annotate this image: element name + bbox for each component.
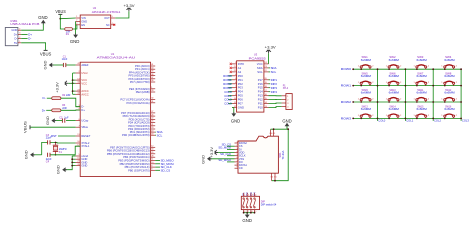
svg-text:GND: GND (45, 116, 50, 125)
svg-text:PD0 (OC0B/SCL/INT0): PD0 (OC0B/SCL/INT0) (122, 133, 150, 137)
junction SW7 row tap (416, 85, 418, 87)
wire ground flag stem (SD top) (286, 126, 288, 129)
wire power bus to VCC pin (73, 79, 76, 81)
switch SW7 (416, 82, 418, 84)
svg-text:COL3: COL3 (462, 119, 469, 123)
svg-text:USB A MALE PCB: USB A MALE PCB (10, 22, 39, 26)
svg-text:COL0: COL0 (378, 119, 385, 123)
wire SD_MOSI to SD1 (227, 148, 235, 150)
junction SW15 column (432, 118, 434, 120)
ground flag (SD VSS) (207, 156, 210, 161)
junction dip ground (250, 212, 252, 214)
wire D- label to R2 (47, 97, 52, 99)
junction SW10 column (405, 101, 407, 103)
junction SW4 column (460, 68, 462, 70)
junction SW12 row tap (444, 101, 446, 103)
switch SW13 (360, 115, 362, 117)
U1 pin 21 PD3 (TXD1/INT3) stub (151, 125, 156, 127)
wire U3 P10 to connector P1 (269, 107, 282, 108)
wire column 3 bus (460, 69, 462, 121)
DIP switch pin 3 stub (250, 193, 252, 197)
wire R2 to D- pin (61, 98, 80, 107)
wire R3 to D+ pin (61, 109, 80, 111)
svg-text:PE2 (HWB): PE2 (HWB) (136, 90, 150, 94)
wire COL1 stub (U3) (228, 95, 232, 97)
switch SW4 (444, 66, 446, 68)
svg-text:D+: D+ (14, 32, 18, 36)
svg-text:VBUS: VBUS (23, 121, 28, 133)
wire U2 OUT to +3.3V (115, 11, 129, 18)
USB1 pin 2 D- stub (18, 38, 21, 40)
capacitor C2 (61, 119, 63, 123)
U1 pin 40 PF1 (ADC1) stub (151, 68, 156, 70)
U1 pin 27 PD7 (T0/OC4D/ADC10) stub (151, 112, 156, 114)
junction dip ground (254, 212, 256, 214)
svg-text:5: 5 (237, 154, 238, 156)
U1 pin 39 PF4 (ADC4/TCK) stub (151, 71, 156, 73)
U1 pin 2 UVcc stub (76, 72, 81, 74)
svg-text:PCA9555: PCA9555 (249, 57, 267, 61)
svg-text:22R: 22R (62, 107, 67, 110)
SD1 pin 6 VSS stub (235, 158, 239, 160)
wire VBUS down to junction (59, 14, 61, 18)
P1 pin 3 stub (282, 102, 286, 104)
junction SW8 column (460, 85, 462, 87)
junction SW4 row tap (444, 68, 446, 70)
svg-text:G2: G2 (270, 177, 273, 179)
junction SW12 column (460, 101, 462, 103)
U3 pin 11 P07 stub (232, 103, 237, 105)
U1 pin 33 PE2 (HWB) stub (151, 91, 156, 93)
svg-text:6x6MM: 6x6MM (389, 74, 399, 78)
svg-text:U2: U2 (93, 6, 97, 10)
svg-text:4: 4 (237, 151, 238, 153)
svg-text:2: 2 (237, 145, 238, 147)
wire DIP1 stub (U3) (269, 79, 271, 81)
svg-text:XH-4: XH-4 (283, 87, 289, 90)
svg-text:SCL: SCL (257, 70, 263, 74)
svg-text:PB3 (PDO/PCINT3/MISO): PB3 (PDO/PCINT3/MISO) (118, 158, 149, 162)
svg-text:VBUS: VBUS (40, 51, 52, 56)
svg-text:PF7 (ADC7/TDI): PF7 (ADC7/TDI) (130, 80, 150, 84)
U3 pin 5 P01 stub (232, 79, 237, 81)
junction SW9 row tap (360, 101, 362, 103)
junction power bus (72, 79, 74, 81)
svg-text:TF-01A: TF-01A (281, 150, 285, 159)
DIP switch pin 6 stub (246, 210, 248, 213)
SD1 pin 5 SCLK stub (235, 155, 239, 157)
svg-text:SD_MOSI: SD_MOSI (218, 146, 231, 150)
no-connect mark on U3 left pin (230, 71, 232, 73)
svg-text:1: 1 (237, 141, 238, 143)
wire SDA stub (U3) (269, 67, 271, 69)
svg-text:3: 3 (19, 33, 20, 35)
wire U3 GND to ground (232, 108, 234, 114)
wire XTAL2 cap branch (42, 142, 48, 154)
svg-text:G4: G4 (269, 133, 272, 135)
regulator U2 body (80, 15, 111, 29)
U3 pin 23 SDA stub (264, 67, 269, 69)
junction SD ground 1 (273, 128, 275, 130)
svg-text:22R: 22R (66, 94, 71, 97)
svg-text:CD: CD (239, 166, 243, 170)
no-connect mark on U3 left pin (230, 67, 232, 69)
svg-text:ROW2: ROW2 (341, 100, 352, 104)
svg-text:ATMEGA32U4-AU: ATMEGA32U4-AU (97, 56, 136, 60)
wire COL2 stub (U3) (228, 99, 232, 101)
DIP switch pin 7 stub (250, 210, 252, 213)
U1 pin 17 XTAL1 stub (76, 145, 81, 147)
U1 pin 38 PF5 (ADC5/TMS) stub (151, 75, 156, 77)
wire SD_CS stub (155, 169, 160, 171)
U1 pin 22 PD5 (XCK1/CTS) stub (151, 118, 156, 120)
svg-text:D-: D- (28, 37, 31, 41)
U3 pin 6 P02 stub (232, 83, 237, 85)
U3 pin 21 A1 stub (232, 67, 237, 69)
wire C2 to ground (55, 120, 63, 122)
svg-text:6x6MM: 6x6MM (444, 74, 454, 78)
svg-text:GND: GND (242, 218, 252, 223)
wire row 0 bus (353, 68, 462, 70)
U1 pin 19 PD1 (SDA/INT1) stub (151, 131, 156, 133)
power flag +3.3V (U1) (65, 81, 68, 86)
svg-text:SD_CS: SD_CS (161, 168, 171, 172)
DIP switch pin 1 stub (243, 193, 245, 197)
svg-text:GND: GND (38, 15, 48, 20)
svg-text:D-: D- (14, 37, 17, 41)
wire power bus to VCC pin (73, 90, 76, 92)
U2 pin 1 VIN stub (76, 17, 81, 19)
junction SW6 column (405, 85, 407, 87)
wire XTAL2 line (50, 141, 76, 144)
svg-text:GND: GND (81, 19, 87, 23)
junction SW9 column (377, 101, 379, 103)
svg-text:6x6MM: 6x6MM (444, 107, 454, 111)
wire power bus to VCC pin (73, 82, 76, 84)
svg-text:EN: EN (81, 23, 85, 27)
U3 pin 22 SCL stub (264, 71, 269, 73)
svg-text:6x6MM: 6x6MM (417, 107, 427, 111)
SD1 shield pin G3 stub (273, 129, 275, 136)
junction XTAL1 node (55, 154, 57, 156)
wire 5V to VBUS flag (21, 43, 45, 51)
ground flag (crystal) (30, 152, 33, 157)
wire GND pin to bus (72, 161, 75, 163)
svg-text:VBus: VBus (81, 125, 88, 129)
U1 pin 23 GND stub (76, 161, 81, 163)
svg-text:D+: D+ (42, 108, 46, 112)
capacitor C3 (47, 140, 49, 144)
junction SW14 row tap (388, 118, 390, 120)
wire DIP4 stub (U3) (269, 91, 271, 93)
wire GND pin to bus (72, 155, 75, 157)
svg-text:SCL: SCL (157, 133, 163, 137)
U1 pin 29 PB5 (PCINT5/OC1A/OC4B/ADC12) stub (151, 153, 156, 155)
connector USB1 body (5, 28, 18, 46)
U1 pin 10 PB2 (PDI/PCINT2/MOSI) stub (151, 163, 156, 165)
wire D+ stub (21, 33, 27, 35)
svg-text:GND: GND (24, 150, 29, 159)
svg-text:22pF: 22pF (46, 137, 52, 140)
junction SW11 column (432, 101, 434, 103)
U1 pin 3 D- stub (76, 106, 81, 108)
svg-text:5: 5 (112, 16, 113, 18)
junction row 2 start (352, 101, 354, 103)
wire SD_MISO to SD1 (227, 161, 235, 163)
svg-text:6: 6 (237, 157, 238, 159)
junction SW7 column (432, 85, 434, 87)
U3 pin 10 P06 stub (232, 99, 237, 101)
U1 pin 34 VCC stub (76, 82, 81, 84)
svg-text:D+: D+ (81, 108, 85, 112)
switch SW5 (360, 82, 362, 84)
wire +3.3V flag to bus (68, 82, 72, 84)
wire U3 P13 to connector P1 (269, 95, 282, 97)
svg-text:COL3: COL3 (224, 102, 232, 106)
wire SD_CS to SD1 (227, 145, 235, 147)
junction SW2 row tap (388, 68, 390, 70)
U1 pin 12 PB7 (PCINT7/OC0A/OC1C/RTS) stub (151, 146, 156, 148)
junction dip ground (246, 212, 248, 214)
wire power bus to VCC pin (73, 72, 76, 74)
wire U3 P12 to connector P1 (269, 98, 282, 100)
svg-text:2: 2 (19, 37, 20, 39)
switch SW8 (444, 82, 446, 84)
wire ROW3 stub (U3) (228, 87, 232, 89)
U1 pin 36 PF7 (ADC7/TDI) stub (151, 81, 156, 83)
wire SD_CLK to SD1 (227, 155, 235, 157)
svg-text:VBUS: VBUS (55, 9, 66, 14)
U1 pin 30 PB6 (PCINT6/OC1B/OC4B/ADC13) stub (151, 150, 156, 152)
svg-text:6x6MM: 6x6MM (417, 74, 427, 78)
svg-text:9: 9 (237, 167, 238, 169)
ground flag (DIP) (245, 215, 250, 218)
wire SD_CLK stub (155, 166, 160, 168)
wire VBUS to R1 (60, 19, 65, 29)
svg-text:6x6MM: 6x6MM (389, 58, 399, 62)
svg-text:7: 7 (237, 160, 238, 162)
switch SW1 (360, 66, 362, 68)
wire SD VSS to ground (210, 158, 234, 160)
SD1 pin 8 DATA1 stub (235, 164, 239, 166)
junction SW2 column (405, 68, 407, 70)
U1 pin 1 PE6 (INT.6/AIN0) stub (151, 88, 156, 90)
junction SW14 column (405, 118, 407, 120)
net port bar VBUS (44, 49, 48, 51)
svg-text:VIN: VIN (81, 16, 85, 20)
svg-text:ROW3: ROW3 (341, 116, 352, 120)
SD1 shield pin G4 stub (270, 129, 272, 136)
svg-text:D-: D- (43, 96, 46, 100)
DIP switch pin 5 stub (243, 210, 245, 213)
U3 pin 19 P16 stub (264, 83, 269, 85)
P1 pin 2 stub (282, 98, 286, 100)
switch SW11 (416, 99, 418, 101)
crystal X1 (55, 142, 57, 145)
SD1 shield pin G1 stub (274, 173, 276, 181)
P1 pin 1 stub (282, 95, 286, 97)
U1 pin 44 AVCC stub (76, 93, 81, 95)
U1 pin 15 GND stub (76, 158, 81, 160)
wire VBUS to VIN (60, 17, 75, 20)
svg-text:G1: G1 (274, 177, 277, 179)
svg-text:6x6MM: 6x6MM (417, 58, 427, 62)
capacitor C1 (62, 63, 64, 67)
U1 pin 32 PC7 (ICP3/CLK0/OC4A) stub (151, 99, 156, 101)
junction power bus (72, 82, 74, 84)
wire ROW2 stub (U3) (228, 83, 232, 85)
SD1 pin 2 CS stub (235, 145, 239, 147)
switch SW3 (416, 66, 418, 68)
switch SW16 (444, 115, 446, 117)
ground flag (U3) (231, 113, 236, 116)
junction SW6 row tap (388, 85, 390, 87)
U3 pin 13 P10 stub (264, 107, 269, 109)
U1 pin 8 PB0 (SS/PCINT0) stub (151, 169, 156, 171)
svg-text:AP2112K-3.3TRG1: AP2112K-3.3TRG1 (92, 10, 121, 14)
svg-text:5V: 5V (14, 41, 17, 45)
svg-text:COL1: COL1 (406, 119, 413, 123)
U3 pin 4 P00 stub (232, 75, 237, 77)
svg-text:4: 4 (19, 28, 20, 30)
USB1 pin 4 GND stub (18, 29, 21, 31)
svg-text:8: 8 (237, 164, 238, 166)
ground flag (C2) (51, 118, 54, 123)
U3 pin 16 P13 stub (264, 95, 269, 97)
DIP switch pin 2 stub (246, 193, 248, 197)
junction SD ground 2 (287, 128, 289, 130)
wire D- stub (21, 38, 27, 40)
wire SCL stub (U3) (269, 71, 271, 73)
ground flag (U2) (73, 35, 78, 38)
svg-text:+3.3V: +3.3V (124, 3, 135, 8)
junction SW10 row tap (388, 101, 390, 103)
power flag +3.3V (SD1) (215, 150, 218, 155)
U1 pin 20 PD2 (RXD1/INT2) stub (151, 128, 156, 130)
junction ground bus (71, 165, 73, 167)
U3 pin 14 P11 stub (264, 103, 269, 105)
U3 pin 9 P05 stub (232, 95, 237, 97)
power flag +3.3V (U3) (266, 50, 271, 53)
wire column 0 bus (377, 69, 379, 121)
svg-text:6x6MM: 6x6MM (444, 91, 454, 95)
svg-text:6x6MM: 6x6MM (417, 91, 427, 95)
svg-text:3: 3 (237, 148, 238, 150)
wire row 1 bus (353, 85, 462, 87)
net port bar VBUS (U1) (29, 125, 31, 129)
svg-text:1: 1 (76, 16, 77, 18)
wire UCap to C2 (66, 120, 76, 122)
U2 pin 3 EN stub (76, 24, 81, 26)
U1 pin 16 XTAL2 stub (76, 142, 81, 144)
U1 pin 26 PD6 (T1/OC4D/ADC9) stub (151, 115, 156, 117)
svg-text:GND: GND (11, 28, 17, 32)
SD1 pin 4 VDD stub (235, 152, 239, 154)
junction SW13 row tap (360, 118, 362, 120)
svg-text:ROW0: ROW0 (341, 67, 352, 71)
dip switch element 4 (254, 198, 255, 199)
U3 pin 7 P03 stub (232, 87, 237, 89)
junction SW13 column (377, 118, 379, 120)
wire COL3 stub (U3) (228, 103, 232, 105)
connector P1 body (286, 94, 292, 110)
svg-text:P10: P10 (258, 106, 263, 110)
wire VBus pin to VBUS port (30, 126, 76, 128)
svg-text:GND: GND (70, 39, 80, 44)
svg-text:RST: RST (51, 134, 57, 138)
svg-text:2: 2 (76, 20, 77, 22)
wire dip ground stem (246, 213, 248, 215)
junction row 3 start (352, 118, 354, 120)
svg-text:GND: GND (56, 165, 61, 174)
wire SD_MOSI stub (155, 163, 160, 165)
resistor R2 (52, 97, 61, 100)
wire COL0 stub (U3) (228, 91, 232, 93)
junction row 1 start (352, 85, 354, 87)
ground flag (SD top) (285, 123, 290, 126)
U3 pin 1 INT# stub (232, 63, 237, 65)
dip switch body (241, 196, 259, 209)
svg-text:UCap: UCap (81, 119, 88, 123)
wire column 2 bus (432, 69, 434, 121)
wire row 3 bus (353, 117, 462, 119)
svg-text:VCC: VCC (81, 81, 87, 85)
switch SW10 (388, 99, 390, 101)
SD1 pin 7 DO stub (235, 161, 239, 163)
wire USB GND to ground (21, 23, 43, 30)
SD1 pin 9 CD stub (235, 167, 239, 169)
wire D+ label to R3 (46, 109, 52, 111)
U2 pin 5 OUT stub (111, 17, 116, 19)
wire ROW0 stub (U3) (228, 75, 232, 77)
svg-text:XTAL1: XTAL1 (81, 144, 90, 148)
USB1 pin 3 D+ stub (18, 33, 21, 35)
junction SW1 column (377, 68, 379, 70)
junction SW11 row tap (416, 101, 418, 103)
svg-text:GND: GND (42, 60, 47, 69)
svg-text:AREF: AREF (81, 63, 89, 67)
switch SW2 (388, 66, 390, 68)
no-connect mark on U2 NC (113, 24, 115, 26)
junction SW16 row tap (444, 118, 446, 120)
junction SD ground 3 (274, 180, 276, 182)
resistor R1 (65, 28, 73, 31)
dip switch element 3 (250, 198, 251, 199)
svg-text:G3: G3 (273, 133, 276, 135)
junction ground bus (71, 162, 73, 164)
svg-text:COL2: COL2 (434, 119, 441, 123)
U1 pin 24 AVCC stub (76, 90, 81, 92)
junction SW5 row tap (360, 85, 362, 87)
U3 pin 12 GND stub (232, 107, 237, 109)
U1 pin 5 uGnd stub (76, 155, 81, 157)
svg-text:RESET: RESET (81, 134, 90, 138)
U1 pin 7 VBus stub (76, 126, 81, 128)
junction dip ground (243, 212, 245, 214)
wire XTAL1 line (50, 146, 80, 155)
U3 pin 15 P12 stub (264, 99, 269, 101)
svg-text:+3.3V: +3.3V (265, 44, 276, 49)
wire C1 to ground (52, 64, 63, 66)
wire power bus to VCC pin (73, 93, 76, 95)
svg-text:NC: NC (106, 23, 110, 27)
svg-text:1: 1 (19, 41, 20, 43)
svg-text:6x6MM: 6x6MM (389, 107, 399, 111)
switch SW9 (360, 99, 362, 101)
wire crystal caps to ground (34, 154, 42, 156)
net port bar VBUS (U2 input) (58, 13, 62, 15)
svg-text:ROW1: ROW1 (341, 84, 352, 88)
